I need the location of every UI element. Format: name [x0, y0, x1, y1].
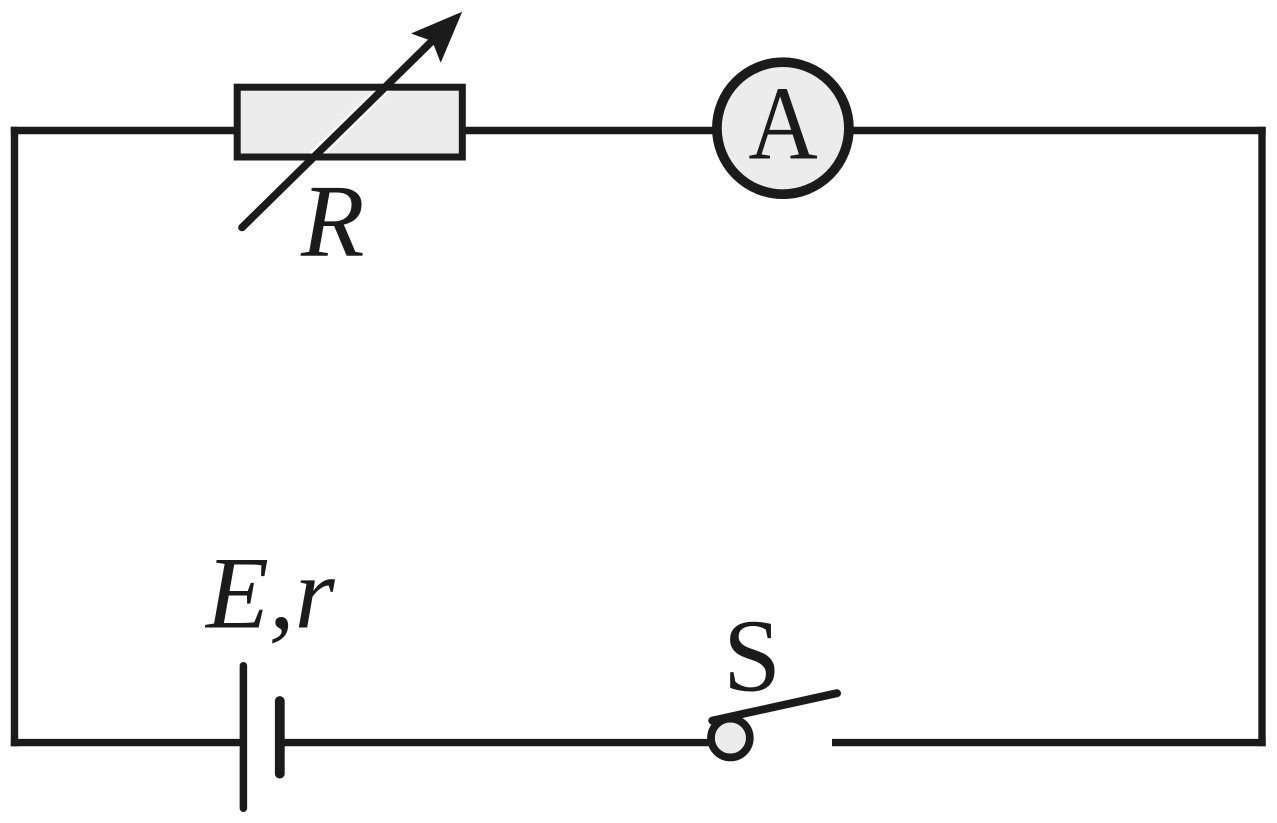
svg-text:S: S: [723, 598, 781, 713]
svg-text:E,r: E,r: [204, 537, 336, 651]
variable-resistor arrow shaft: [242, 26, 447, 227]
battery E,r : short plate: [275, 701, 285, 774]
resistor R (variable rheostat box): [237, 12, 462, 228]
wire: bottom-left segment (left rail to battery): [11, 739, 244, 746]
wire: bottom-right segment (switch S to right rail): [832, 739, 1266, 746]
svg-text:A: A: [748, 65, 817, 182]
wire: top-middle segment (resistor R to ammeter A): [463, 127, 716, 134]
variable-resistor arrowhead: [411, 12, 462, 63]
switch S: pivot contact circle: [711, 719, 750, 758]
svg-text:R: R: [300, 164, 365, 279]
wire: left rail (vertical): [11, 127, 18, 747]
switch S: lever arm: [712, 693, 837, 720]
wire: top-right segment (ammeter A to right rail): [850, 127, 1266, 134]
ammeter A: [717, 62, 849, 194]
wire: right rail (vertical): [1258, 127, 1265, 747]
wire: top-left segment (left rail to resistor R): [11, 127, 237, 134]
battery E,r : long plate: [240, 666, 248, 808]
wire: bottom-middle segment (battery to switch S): [280, 739, 712, 746]
